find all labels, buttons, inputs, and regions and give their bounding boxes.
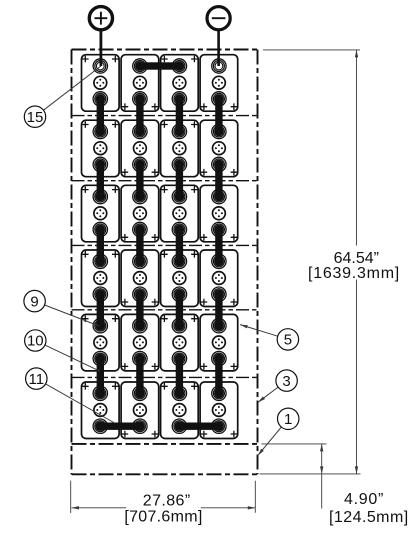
battery cell row2 col1 <box>82 120 120 177</box>
battery cell row1 col1 <box>82 55 120 111</box>
battery cell row5 col2 <box>121 314 159 371</box>
balloon 3 <box>276 370 297 391</box>
svg-text:5: 5 <box>284 332 292 349</box>
leader for balloon 5 <box>240 325 278 337</box>
battery cell row4 col1 <box>82 250 120 307</box>
width dimension 27.86in dimension line <box>72 507 127 509</box>
leader for balloon 11 <box>46 384 115 423</box>
positive terminal symbol <box>89 7 112 66</box>
battery cell row3 col4 <box>200 185 238 242</box>
width dimension 27.86in extension lines <box>70 481 72 513</box>
inter-cell straps row6 bottom (col1-col2, col3-col4) <box>96 421 224 431</box>
balloon 10 <box>25 330 46 351</box>
height dimension 64.54in dimension line <box>356 50 358 246</box>
svg-text:[1639.3mm]: [1639.3mm] <box>308 265 400 282</box>
svg-text:[124.5mm]: [124.5mm] <box>329 509 409 526</box>
leader for balloon 3 <box>258 387 278 402</box>
battery cell row1 col4 <box>200 55 238 111</box>
svg-text:9: 9 <box>30 293 38 310</box>
svg-text:[707.6mm]: [707.6mm] <box>124 509 202 526</box>
balloon 1 <box>278 408 299 429</box>
battery cell row2 col2 <box>121 120 159 177</box>
battery cell row4 col2 <box>121 250 159 307</box>
battery cell row2 col3 <box>161 120 199 177</box>
battery cell row4 col3 <box>161 250 199 307</box>
leader for balloon 10 <box>45 345 100 371</box>
svg-text:27.86”: 27.86” <box>143 493 191 510</box>
leader for balloon 9 <box>45 305 99 326</box>
battery cell row6 col4 <box>200 382 238 439</box>
svg-text:3: 3 <box>282 373 290 390</box>
battery cell row4 col4 <box>200 250 238 307</box>
inter-tier connector straps (vertical) <box>96 94 224 398</box>
shelf rails <box>72 116 258 378</box>
base height dimension 4.90in extension line <box>261 443 326 445</box>
svg-text:15: 15 <box>27 109 44 126</box>
svg-text:11: 11 <box>29 371 45 388</box>
battery cell row6 col1 <box>82 382 120 439</box>
battery cell row2 col4 <box>200 120 238 177</box>
inter-cell strap row1 top (col2-col3) <box>135 61 184 71</box>
balloon 15 <box>24 106 45 127</box>
balloon 5 <box>277 329 298 350</box>
balloon 11 <box>26 368 47 389</box>
battery cell row3 col2 <box>121 185 159 242</box>
battery cell row3 col3 <box>161 185 199 242</box>
battery cell row3 col1 <box>82 185 120 242</box>
leader for balloon 1 <box>258 427 282 456</box>
battery cell row5 col4 <box>200 314 238 371</box>
negative terminal symbol <box>207 7 230 66</box>
battery cell row5 col3 <box>161 314 199 371</box>
battery cell row5 col1 <box>82 314 120 371</box>
battery cell row6 col2 <box>121 382 159 439</box>
svg-text:4.90”: 4.90” <box>344 491 384 508</box>
svg-text:10: 10 <box>27 333 44 350</box>
battery cell row1 col3 <box>161 55 199 111</box>
balloon 9 <box>24 290 45 311</box>
rack frame outline <box>72 50 258 475</box>
leader for balloon 15 <box>44 66 101 110</box>
base height dimension 4.90in dimension line <box>321 444 323 509</box>
battery cell row6 col3 <box>161 382 199 439</box>
svg-text:1: 1 <box>284 411 292 428</box>
battery cell row1 col2 <box>121 55 159 111</box>
height dimension 64.54in extension lines <box>263 49 360 51</box>
